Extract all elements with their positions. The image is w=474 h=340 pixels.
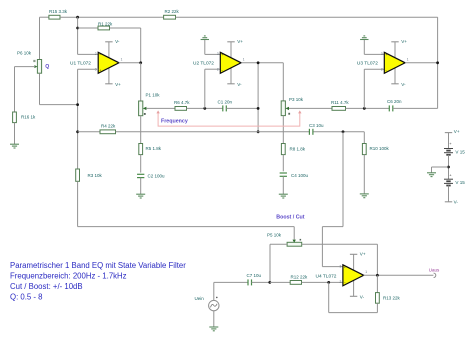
node P6 bottom junction (76, 103, 79, 106)
svg-text:V+: V+ (454, 129, 460, 134)
wire R16 to ground (14, 123, 16, 145)
wire R6 to C1 (187, 107, 223, 109)
potentiometer P5 10k Boost pot (267, 232, 302, 246)
op-amp U3 TL072 (357, 39, 409, 87)
svg-text:V 15: V 15 (455, 180, 465, 185)
connector Uaus (434, 273, 436, 277)
wire U3 output (405, 62, 438, 64)
ground at U3 non-inverting input (360, 36, 368, 40)
wire C6 to U3 output riser (393, 107, 438, 109)
svg-text:V+: V+ (360, 251, 366, 256)
svg-text:+: + (221, 53, 223, 57)
potentiometer P1 10k (139, 93, 161, 116)
wire P6 bottom to U1 non-inverting node (40, 73, 78, 104)
wire P1 bottom to R5 (140, 116, 142, 144)
op-amp U2 TL072 (193, 39, 245, 87)
wire ground to U2 non-inverting input (205, 40, 221, 54)
svg-text:3: 3 (340, 264, 342, 268)
svg-text:R6 4.7k: R6 4.7k (174, 100, 190, 105)
wire R10 to ground (363, 155, 365, 194)
wire top rail middle segment (60, 16, 164, 18)
svg-text:Q: 0.5 - 8: Q: 0.5 - 8 (10, 293, 43, 302)
node R1 tap (76, 27, 79, 30)
wire U4 output (364, 274, 434, 276)
wire R4 to C3 (116, 131, 310, 133)
wire R4 left lead (78, 131, 100, 133)
svg-text:R10 100k: R10 100k (370, 146, 390, 151)
node input summing junction (268, 281, 271, 284)
resistor R15 3.3k (49, 9, 68, 19)
label Frequency (161, 118, 188, 124)
op-amp U1 TL072 (70, 39, 123, 87)
svg-text:C3 10u: C3 10u (309, 123, 324, 128)
node U4 output junction (376, 274, 379, 277)
resistor R16 1k (13, 112, 36, 123)
resistor R11 4.7k (331, 100, 349, 111)
svg-text:Boost / Cut: Boost / Cut (276, 215, 304, 221)
svg-text:−: − (221, 68, 223, 72)
svg-text:2: 2 (381, 67, 383, 71)
ground at C2 (136, 194, 145, 198)
svg-text:U2 TL072: U2 TL072 (193, 61, 214, 67)
node C1 output junction (257, 107, 260, 110)
svg-text:R15 3.3k: R15 3.3k (49, 9, 68, 14)
wire Uein to C7 (214, 281, 248, 283)
wire R3 to P5 wiper (78, 181, 295, 239)
svg-text:V+: V+ (237, 39, 243, 44)
wire U1 inverting input riser (78, 17, 99, 54)
svg-text:+: + (449, 173, 452, 178)
svg-text:V-: V- (115, 39, 120, 44)
wire R5 to C2 (140, 155, 142, 173)
svg-text:C4 100u: C4 100u (291, 173, 309, 178)
svg-text:P5 10k: P5 10k (267, 232, 282, 237)
wire R8 to C4 (282, 155, 284, 172)
ground at R16 (10, 144, 19, 148)
label Boost / Cut (276, 215, 304, 221)
svg-text:Q: Q (45, 64, 49, 70)
ground at Uein (209, 327, 218, 331)
potentiometer P6 10k Q pot (17, 51, 42, 74)
wire P6 wiper to R16 (15, 67, 36, 112)
svg-text:V 15: V 15 (455, 149, 465, 154)
wire R13 feedback return (329, 282, 378, 312)
svg-text:V-: V- (360, 294, 365, 299)
resistor R4 22k (100, 124, 116, 134)
ground at U2 non-inverting input (201, 36, 209, 40)
resistor R8 1.8k (281, 144, 305, 155)
svg-text:1: 1 (121, 58, 123, 62)
svg-text:U1 TL072: U1 TL072 (70, 61, 91, 67)
svg-text:R11 4.7k: R11 4.7k (331, 100, 349, 105)
svg-text:U4 TL072: U4 TL072 (316, 273, 337, 279)
svg-text:C7 10u: C7 10u (247, 273, 262, 278)
node U2 output junction (257, 61, 260, 64)
svg-text:R2 22k: R2 22k (165, 9, 180, 14)
battery V 15 upper (444, 141, 465, 155)
wire boost feed to U4 non-inverting input (322, 132, 343, 267)
svg-text:Frequency: Frequency (161, 118, 188, 124)
capacitor C4 100u (280, 173, 309, 178)
svg-text:+: + (344, 266, 346, 270)
node R4 junction (76, 130, 79, 133)
svg-text:R4 22k: R4 22k (101, 124, 116, 129)
wire P5 left terminal to input node (270, 244, 287, 282)
frequency control bus (156, 110, 301, 126)
svg-text:−: − (385, 68, 387, 72)
wire U3 inverting input riser (364, 69, 384, 108)
svg-text:R3 10k: R3 10k (88, 173, 103, 178)
wire R11 to C6 (346, 107, 390, 109)
capacitor C2 100u (137, 174, 165, 179)
svg-text:R16 1k: R16 1k (21, 115, 36, 120)
wire P1 wiper to R6 (146, 107, 175, 109)
svg-text:+: + (449, 141, 452, 146)
ground at C4 (279, 194, 288, 198)
wire P3 bottom to R8 (282, 116, 284, 144)
op-amp U4 TL072 (316, 251, 368, 299)
svg-text:Uein: Uein (195, 296, 205, 301)
svg-text:P1 10k: P1 10k (146, 93, 161, 98)
svg-text:2: 2 (217, 67, 219, 71)
svg-text:P6 10k: P6 10k (17, 51, 32, 56)
node top rail to U1 inverting input (76, 16, 79, 19)
wire top feedback rail left segment (40, 17, 49, 59)
wire Uein to ground (213, 311, 215, 327)
wire ground to U3 non-inverting input (364, 40, 384, 54)
ground at supply center tap (427, 173, 436, 177)
svg-text:+: + (99, 68, 101, 72)
svg-text:R5 1.8k: R5 1.8k (146, 146, 162, 151)
svg-text:U3 TL072: U3 TL072 (357, 61, 378, 67)
wire C7 to input node (252, 281, 270, 283)
source Uein (195, 282, 220, 310)
node supply center tap (447, 166, 450, 169)
svg-text:1: 1 (365, 270, 367, 274)
capacitor C1 20n (218, 99, 233, 111)
svg-text:C1 20n: C1 20n (218, 99, 233, 104)
wire C2 to ground (140, 178, 142, 195)
svg-text:V+: V+ (401, 39, 407, 44)
capacitor C3 10u (309, 123, 324, 135)
node U3 output junction (436, 61, 439, 64)
wire P5 right terminal to U4 output (302, 244, 378, 275)
resistor R3 10k (76, 169, 103, 181)
svg-text:2: 2 (95, 52, 97, 56)
label Q (45, 64, 49, 70)
svg-text:3: 3 (381, 52, 383, 56)
wire battery 2 to V- terminal (448, 186, 450, 202)
resistor R1 22k (78, 21, 141, 62)
svg-text:R8 1.8k: R8 1.8k (290, 147, 306, 152)
potentiometer P3 10k (281, 97, 304, 116)
wire U2 output to P3 top (282, 63, 284, 101)
node U2 inverting junction (203, 107, 206, 110)
svg-text:V-: V- (454, 200, 459, 205)
wire top rail right segment to U3 output (176, 17, 438, 108)
svg-text:V+: V+ (115, 82, 121, 87)
svg-text:Uaus: Uaus (429, 268, 440, 273)
label Uaus (429, 268, 440, 273)
resistor R13 22k (376, 293, 401, 304)
wire C1 to U2 output riser (226, 63, 258, 132)
node bandpass tap junction (257, 130, 260, 133)
svg-text:V-: V- (401, 82, 406, 87)
battery V 15 lower (444, 173, 465, 186)
wire center tap to ground (432, 167, 449, 173)
svg-text:2: 2 (340, 280, 342, 284)
resistor R5 1.8k (139, 144, 162, 155)
svg-text:V-: V- (237, 82, 242, 87)
wire U2 inverting input riser (205, 69, 221, 108)
power rail V- terminal (445, 200, 459, 205)
capacitor C6 20n (387, 99, 402, 112)
resistor R6 4.7k (174, 100, 190, 111)
resistor R2 22k (164, 9, 180, 19)
wire U1 non-inverting input column (78, 69, 99, 169)
wire C4 to ground (282, 176, 284, 194)
svg-text:R13 22k: R13 22k (383, 295, 401, 300)
node U4 inverting junction (327, 281, 330, 284)
svg-text:−: − (344, 281, 346, 285)
resistor R10 100k (362, 144, 389, 155)
wire V+ to battery 1 (448, 133, 450, 149)
svg-text:R1 22k: R1 22k (98, 21, 113, 26)
wire U1 output (119, 62, 141, 64)
svg-text:C6 20n: C6 20n (387, 99, 402, 104)
title text block (10, 261, 186, 302)
svg-text:1: 1 (243, 58, 245, 62)
wire battery 1 to battery 2 (448, 155, 450, 179)
wire U1 output to P1 top (140, 63, 142, 101)
svg-text:C2 100u: C2 100u (148, 174, 166, 179)
svg-text:P3 10k: P3 10k (289, 97, 304, 102)
node U3 inverting junction (363, 107, 366, 110)
ground at R10 (360, 194, 369, 198)
wire U4 output to R13 (376, 275, 378, 292)
svg-text:1: 1 (407, 58, 409, 62)
svg-text:Frequenzbereich: 200Hz - 1.7kH: Frequenzbereich: 200Hz - 1.7kHz (10, 272, 127, 281)
power rail V+ terminal (445, 129, 460, 134)
wire P3 wiper to R11 (289, 107, 332, 109)
svg-text:−: − (99, 53, 101, 57)
node U1 output junction (139, 61, 142, 64)
svg-text:R12 22k: R12 22k (291, 275, 309, 280)
svg-text:Parametrischer 1 Band EQ mit S: Parametrischer 1 Band EQ mit State Varia… (10, 261, 186, 270)
node boost feed junction (342, 130, 345, 133)
resistor R12 22k (270, 275, 343, 285)
wire U2 output (241, 62, 283, 64)
wire C3 to R10 top (313, 132, 364, 144)
svg-text:+: + (385, 53, 387, 57)
svg-text:Cut / Boost: +/- 10dB: Cut / Boost: +/- 10dB (10, 282, 83, 291)
capacitor C7 10u (247, 273, 262, 285)
svg-text:3: 3 (217, 52, 219, 56)
